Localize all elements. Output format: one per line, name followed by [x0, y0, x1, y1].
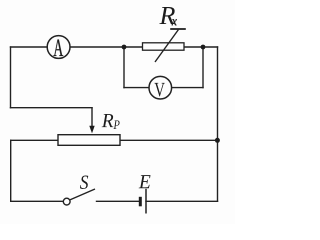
wire top rail: [11, 46, 218, 48]
battery E positive plate: [145, 189, 147, 214]
node right of Rx: [201, 45, 206, 50]
wire battery to right: [146, 200, 218, 202]
battery E negative plate: [139, 197, 142, 207]
node left of Rx: [122, 45, 127, 50]
resistor Rx slider bar: [170, 28, 186, 30]
label S: [80, 176, 88, 189]
rheostat RP body: [58, 135, 120, 146]
wire voltmeter branch left vertical: [123, 47, 125, 88]
resistor Rx body: [143, 29, 186, 62]
label Rx: [159, 7, 176, 25]
wire right vertical: [217, 47, 219, 201]
switch blade: [70, 189, 95, 200]
wire wiper vertical: [91, 108, 93, 129]
wire bottom rail left: [11, 200, 64, 202]
voltmeter V1: [149, 76, 172, 99]
wire horizontal to wiper: [11, 107, 93, 109]
wire voltmeter branch horizontal: [124, 87, 203, 89]
wire rheostat right lead: [120, 139, 218, 141]
label RP: [102, 114, 120, 129]
resistor Rx slider diagonal: [155, 30, 178, 62]
ammeter A1: [47, 36, 70, 59]
wire left vertical lower: [10, 140, 12, 201]
label E: [139, 175, 151, 188]
wire voltmeter branch right vertical: [202, 47, 204, 88]
switch S: [63, 189, 95, 205]
node right rail junction: [215, 138, 220, 143]
wire switch to battery: [97, 200, 139, 202]
rheostat RP wiper arrow: [89, 126, 94, 134]
wire rheostat left lead: [11, 139, 58, 141]
wire left vertical upper: [10, 47, 12, 108]
